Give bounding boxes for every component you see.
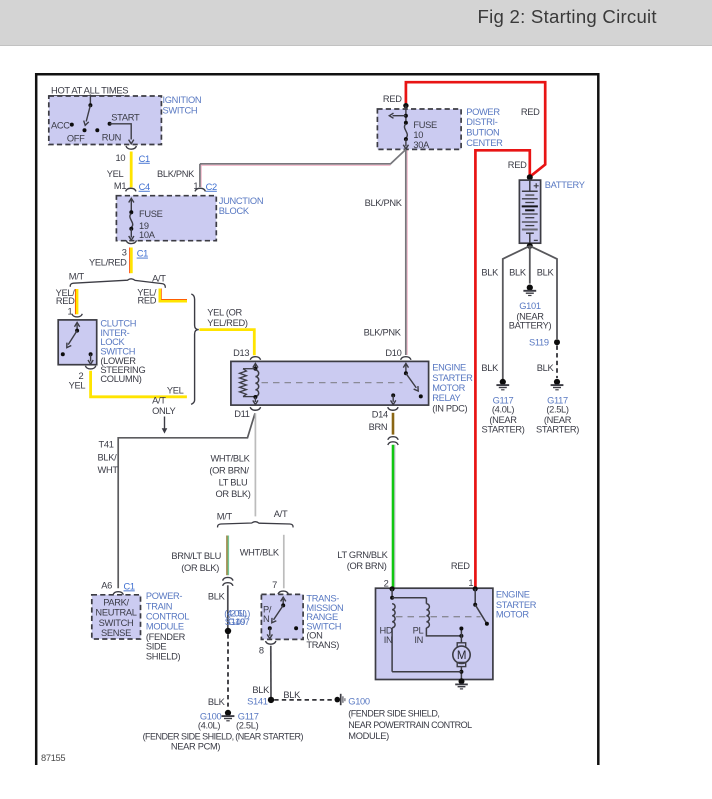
svg-text:A/T: A/T <box>152 273 166 283</box>
wire WHT/BLK relay D11 down <box>254 413 256 516</box>
relay coil output arrow <box>254 397 256 402</box>
contact dot ACC <box>70 123 74 127</box>
svg-text:S141: S141 <box>247 696 268 706</box>
svg-text:A/T: A/T <box>152 396 166 406</box>
svg-text:BATTERY: BATTERY <box>545 180 585 190</box>
svg-text:NEAR PCM): NEAR PCM) <box>171 741 221 751</box>
starter pull-in feed <box>392 597 426 599</box>
svg-text:(FENDER: (FENDER <box>146 632 186 642</box>
relay coil resistor <box>243 368 255 370</box>
svg-text:P/: P/ <box>263 605 272 615</box>
svg-text:1: 1 <box>468 578 473 588</box>
svg-text:NEUTRAL: NEUTRAL <box>95 608 136 618</box>
svg-text:STARTER): STARTER) <box>536 425 579 435</box>
svg-text:G101: G101 <box>519 301 541 311</box>
svg-text:BLK: BLK <box>481 363 499 373</box>
connector arc pin 10 C1 <box>126 146 136 149</box>
starter motor M symbol <box>460 636 462 643</box>
svg-text:(FENDER SIDE SHIELD,: (FENDER SIDE SHIELD, <box>348 709 439 719</box>
relay mechanical link dashed <box>262 382 403 384</box>
svg-text:8: 8 <box>259 645 264 655</box>
pdc branch dot <box>404 114 408 118</box>
svg-text:PL: PL <box>413 625 424 635</box>
svg-text:MODULE: MODULE <box>146 622 184 632</box>
svg-text:CONTROL: CONTROL <box>146 612 189 622</box>
svg-text:STARTER: STARTER <box>496 600 537 610</box>
relay coil top dot <box>253 367 257 371</box>
fuse 19 bottom dot <box>129 227 133 231</box>
contact dot OFF <box>83 128 87 132</box>
svg-text:LT GRN/BLK: LT GRN/BLK <box>337 550 388 560</box>
wire YEL/RED M/T branch <box>75 289 77 314</box>
wire BLK battery to S119 <box>530 246 557 339</box>
svg-text:M: M <box>457 650 466 662</box>
svg-text:BLK: BLK <box>283 690 301 700</box>
wire LT GRN/BLK to starter pin 2 <box>394 445 396 588</box>
starter solenoid switch feed <box>474 589 476 605</box>
svg-text:COLUMN): COLUMN) <box>100 374 141 384</box>
connector arc pin 1 C2 <box>195 188 205 191</box>
svg-text:STARTER): STARTER) <box>481 425 524 435</box>
svg-text:RED: RED <box>383 94 402 104</box>
relay switch pivot dot <box>404 371 408 375</box>
connector arc relay D14 <box>388 407 398 410</box>
connector arc trs pin 7 <box>278 591 288 594</box>
svg-text:BLK/PNK: BLK/PNK <box>157 169 195 179</box>
fork split M/T A/T <box>70 279 165 288</box>
battery minus symbol <box>534 239 538 241</box>
svg-text:A/T: A/T <box>274 509 288 519</box>
wire: hot feed into ignition switch <box>89 95 91 106</box>
fuse 10 output arrow <box>405 139 407 146</box>
clutch switch output arrow <box>90 354 92 361</box>
starter HD coil tail <box>391 628 393 672</box>
svg-text:SWITCH: SWITCH <box>100 346 135 356</box>
relay coil input arrow <box>254 364 256 369</box>
svg-text:BATTERY): BATTERY) <box>509 321 552 331</box>
wire BLK/PNK PDC to relay D10 <box>406 150 408 355</box>
wire YEL/RED A/T branch <box>161 289 187 300</box>
svg-text:SHIELD): SHIELD) <box>146 652 181 662</box>
relay switch input arrow <box>405 364 407 373</box>
svg-text:7: 7 <box>272 580 277 590</box>
svg-text:YEL/RED): YEL/RED) <box>207 318 248 328</box>
fuse 10 bottom dot <box>404 137 408 141</box>
starter internal ground bus <box>392 671 461 673</box>
splice dot S119 <box>554 339 560 345</box>
relay coil bottom dot <box>253 395 257 399</box>
svg-text:D13: D13 <box>233 348 249 358</box>
ground G101 <box>527 285 533 291</box>
svg-text:D11: D11 <box>234 409 250 419</box>
wire BLK trs to S141 <box>270 646 272 700</box>
svg-text:HD: HD <box>380 625 393 635</box>
svg-text:IGNITION: IGNITION <box>163 95 202 105</box>
svg-text:(4.0L): (4.0L) <box>198 721 221 731</box>
svg-text:BLK/PNK: BLK/PNK <box>364 328 402 338</box>
powertrain control module box <box>92 595 141 639</box>
clutch switch lever <box>68 331 77 345</box>
connector arc clutch pin 2 <box>85 366 95 369</box>
svg-text:IN: IN <box>414 635 423 645</box>
wire BLK battery to G101 <box>529 246 531 284</box>
connector arc relay D10 <box>401 357 411 360</box>
svg-text:BLK: BLK <box>537 363 555 373</box>
wire RED battery to starter <box>475 150 529 587</box>
svg-text:C4: C4 <box>139 182 150 192</box>
svg-text:D14: D14 <box>372 409 388 419</box>
ground G100/G117 <box>225 710 231 716</box>
svg-text:3: 3 <box>122 248 127 258</box>
trs pivot dot <box>281 603 285 607</box>
wire RED fuse 10 to battery <box>406 82 545 177</box>
transmission range switch box <box>261 594 303 639</box>
clutch interlock switch box <box>58 320 96 365</box>
fork split M/T A/T lower <box>218 522 293 528</box>
svg-text:POWER: POWER <box>466 107 500 117</box>
svg-text:BLK: BLK <box>208 697 226 707</box>
clutch switch pivot dot <box>75 329 79 333</box>
svg-text:D10: D10 <box>385 348 401 358</box>
svg-text:C1: C1 <box>124 581 135 591</box>
svg-text:Fig 2: Starting Circuit: Fig 2: Starting Circuit <box>478 6 658 27</box>
svg-text:FUSE: FUSE <box>413 120 437 130</box>
svg-text:BLK: BLK <box>509 267 527 277</box>
svg-text:BRN: BRN <box>369 422 388 432</box>
starter hold-in feed <box>391 589 393 598</box>
svg-text:ENGINE: ENGINE <box>432 362 466 372</box>
wire BLK/PNK from PDC to junction block <box>200 163 202 187</box>
svg-text:HOT AT ALL TIMES: HOT AT ALL TIMES <box>51 85 128 96</box>
wire YEL clutch switch to merge brace <box>91 371 187 397</box>
svg-text:BLK: BLK <box>252 685 270 695</box>
svg-text:M/T: M/T <box>69 272 85 282</box>
svg-text:CENTER: CENTER <box>466 138 503 148</box>
junction dot RED at PDC <box>403 103 408 108</box>
engine starter motor box <box>376 588 493 679</box>
fuse 10 top dot <box>404 121 408 125</box>
svg-text:MOTOR: MOTOR <box>496 610 529 620</box>
svg-text:BLK: BLK <box>481 267 499 277</box>
relay switch output contact dot <box>391 393 395 397</box>
wire YEL merged to relay D13 <box>199 330 254 356</box>
svg-text:N: N <box>263 614 269 624</box>
svg-text:DISTRI-: DISTRI- <box>466 117 498 127</box>
svg-text:RED: RED <box>138 295 157 305</box>
diagram frame border <box>36 74 598 765</box>
svg-text:30A: 30A <box>413 140 430 150</box>
starter pin 1 dot <box>473 586 478 591</box>
contact dot RUN <box>95 128 99 132</box>
starter PL coil tail <box>426 628 461 636</box>
junction block box <box>116 196 216 241</box>
connector arc clutch pin 1 <box>72 314 82 317</box>
svg-text:JUNCTION: JUNCTION <box>219 196 263 206</box>
svg-text:TRAIN: TRAIN <box>146 601 172 611</box>
svg-text:YEL (OR: YEL (OR <box>207 308 242 318</box>
starter bottom junction dot <box>459 670 463 674</box>
svg-text:BLK: BLK <box>537 267 555 277</box>
svg-text:MOTOR: MOTOR <box>432 383 465 393</box>
connector arc relay D11 <box>250 407 260 410</box>
svg-text:LT BLU: LT BLU <box>219 478 248 488</box>
starter motor bottom lead <box>460 667 462 680</box>
ignition switch box <box>49 96 162 145</box>
starter solenoid lever <box>475 605 487 624</box>
svg-text:M1: M1 <box>114 181 126 191</box>
wire BLK dashed S119 to G117 2.5L <box>556 346 558 379</box>
svg-text:RED: RED <box>451 561 470 571</box>
starter HD coil <box>392 604 395 628</box>
svg-text:WHT/BLK: WHT/BLK <box>240 548 280 558</box>
svg-text:C2: C2 <box>206 182 217 192</box>
wire YEL/RED junction block output <box>129 248 131 274</box>
svg-text:2: 2 <box>384 579 389 589</box>
starter PL contact dots <box>459 634 463 638</box>
wire: START contact to output pin <box>110 124 132 140</box>
svg-text:RED: RED <box>508 160 527 170</box>
svg-text:ACC: ACC <box>51 121 70 131</box>
wire BLK/PNK branch to junction block <box>200 149 406 164</box>
trs lever <box>274 605 284 619</box>
wire BLK dashed S141 to G100 <box>274 699 333 701</box>
svg-text:(OR BRN/: (OR BRN/ <box>209 466 249 476</box>
trs right contact dot <box>294 626 298 630</box>
starter coil junction dot <box>390 596 394 600</box>
trs output arrow <box>269 628 271 636</box>
inline connector BRN/LT BLU to BLK <box>223 577 233 580</box>
svg-text:OR BLK): OR BLK) <box>216 489 251 499</box>
svg-text:BUTION: BUTION <box>466 127 499 137</box>
svg-text:FUSE: FUSE <box>139 209 163 219</box>
battery plus symbol <box>534 183 539 188</box>
svg-text:10A: 10A <box>139 230 156 240</box>
svg-text:(FENDER SIDE SHIELD,: (FENDER SIDE SHIELD, <box>143 732 234 742</box>
inline connector BRN to LT GRN/BLK <box>388 437 398 440</box>
engine starter motor relay box <box>231 361 429 405</box>
svg-text:T41: T41 <box>99 440 114 450</box>
svg-text:YEL: YEL <box>167 386 184 396</box>
fuse 19 top dot <box>129 210 133 214</box>
battery positive junction dot <box>527 174 533 180</box>
svg-text:BLK/PNK: BLK/PNK <box>365 198 403 208</box>
fuse 19 element <box>130 214 133 228</box>
clutch switch output contact dot <box>89 352 93 356</box>
svg-text:ENGINE: ENGINE <box>496 590 530 600</box>
svg-text:WHT: WHT <box>98 465 119 475</box>
connector arc relay D13 <box>250 357 260 360</box>
svg-text:(2.5L): (2.5L) <box>546 405 569 415</box>
starter ground symbol <box>459 678 465 684</box>
wire BRN relay D14 out <box>392 413 395 435</box>
svg-text:MODULE): MODULE) <box>348 731 389 741</box>
wire YEL ignition to junction block <box>130 152 133 188</box>
svg-text:BLOCK: BLOCK <box>219 206 250 216</box>
svg-text:BLK/: BLK/ <box>98 453 118 463</box>
starter solenoid pivot dot <box>473 603 477 607</box>
svg-text:SIDE: SIDE <box>146 642 167 652</box>
power distribution center box <box>377 109 461 149</box>
svg-text:STARTER: STARTER <box>432 373 473 383</box>
wire BLK to splice <box>227 585 229 631</box>
svg-text:10: 10 <box>115 153 125 163</box>
svg-text:YEL/RED: YEL/RED <box>89 257 127 267</box>
connector arc pcm A6 C1 <box>113 592 123 595</box>
ignition switch pivot dot <box>88 103 92 107</box>
svg-text:SWITCH: SWITCH <box>99 618 134 628</box>
svg-text:S119: S119 <box>529 338 549 348</box>
clutch switch input arrow <box>76 325 78 331</box>
svg-text:10: 10 <box>413 130 423 140</box>
svg-text:(IN PDC): (IN PDC) <box>432 404 467 414</box>
svg-text:TRANS): TRANS) <box>306 640 339 650</box>
svg-text:YEL: YEL <box>107 169 124 179</box>
svg-text:C1: C1 <box>139 154 150 164</box>
svg-text:(NEAR STARTER): (NEAR STARTER) <box>235 732 303 742</box>
relay coil inductor <box>255 370 258 396</box>
svg-text:1: 1 <box>67 307 72 317</box>
svg-text:RELAY: RELAY <box>432 393 460 403</box>
wire BRN/LT BLU M/T branch <box>226 536 228 576</box>
ground connector G100 symbol <box>335 697 341 703</box>
ignition switch lever <box>86 105 90 121</box>
merge brace <box>191 294 199 404</box>
pdc branch arrow to other circuits <box>393 115 406 117</box>
connector arc pin M1 C4 <box>126 188 136 191</box>
contact dot START <box>108 122 112 126</box>
svg-text:BLK: BLK <box>208 591 226 601</box>
svg-text:(OR BRN): (OR BRN) <box>347 561 387 571</box>
svg-text:WHT/BLK: WHT/BLK <box>210 454 250 464</box>
svg-text:SENSE: SENSE <box>101 628 131 638</box>
relay switch output arrow <box>392 395 394 401</box>
svg-text:M/T: M/T <box>217 512 233 522</box>
battery negative junction dot <box>527 243 533 249</box>
fuse 19 output arrow <box>130 229 132 238</box>
svg-text:SWITCH: SWITCH <box>163 105 198 115</box>
splice dot S149/G107 <box>225 628 231 634</box>
wire BLK dashed to ground G100/G117 <box>227 634 229 706</box>
trs P/N contact dot <box>268 626 272 630</box>
svg-text:C1: C1 <box>137 249 148 259</box>
wire BLK/WHT relay D11 to PCM <box>118 413 255 588</box>
connector arc pin 3 C1 <box>126 240 136 243</box>
pdc internal feed wire <box>405 106 407 123</box>
battery bottom terminal <box>526 232 534 234</box>
svg-text:(2.5L): (2.5L) <box>236 721 259 731</box>
wire WHT/BLK to transmission range switch <box>283 535 285 589</box>
svg-text:RUN: RUN <box>102 133 121 143</box>
battery cell plates <box>522 190 538 192</box>
relay switch lever <box>406 373 416 388</box>
header bar <box>0 0 712 46</box>
svg-text:OFF: OFF <box>67 134 85 144</box>
splice dot S141 <box>268 697 274 703</box>
svg-text:RED: RED <box>521 107 540 117</box>
starter mechanical link dashed <box>396 616 481 618</box>
svg-text:START: START <box>111 112 140 122</box>
svg-text:(OR BLK): (OR BLK) <box>181 563 219 573</box>
svg-text:(4.0L): (4.0L) <box>492 405 515 415</box>
svg-text:G100: G100 <box>348 697 370 707</box>
svg-text:A6: A6 <box>101 581 112 591</box>
ground G117 2.5L <box>554 379 560 385</box>
relay switch NO contact dot <box>419 394 423 398</box>
connector arc trs pin 8 <box>266 641 276 644</box>
svg-text:PARK/: PARK/ <box>103 597 129 607</box>
battery box <box>519 180 540 243</box>
ground G117 4.0L <box>500 379 506 385</box>
svg-text:87155: 87155 <box>41 753 65 763</box>
fuse 19 feed arrow <box>130 200 132 213</box>
clutch switch lower-left contact dot <box>61 352 65 356</box>
svg-text:BRN/LT BLU: BRN/LT BLU <box>171 551 221 561</box>
battery top terminal <box>529 180 531 191</box>
fuse 10 element <box>404 124 407 138</box>
trs input arrow <box>282 599 284 605</box>
wire BLK battery to G117 4.0L <box>503 246 530 379</box>
svg-text:NEAR POWERTRAIN CONTROL: NEAR POWERTRAIN CONTROL <box>348 720 472 730</box>
svg-text:YEL: YEL <box>69 380 86 390</box>
starter solenoid contact dot <box>485 622 489 626</box>
svg-text:RED: RED <box>56 296 75 306</box>
svg-text:G107: G107 <box>228 617 250 627</box>
svg-text:POWER-: POWER- <box>146 591 183 601</box>
svg-text:ONLY: ONLY <box>152 406 175 416</box>
starter pin 2 dot <box>390 586 395 591</box>
starter PL coil <box>426 604 429 628</box>
svg-text:IN: IN <box>384 635 393 645</box>
